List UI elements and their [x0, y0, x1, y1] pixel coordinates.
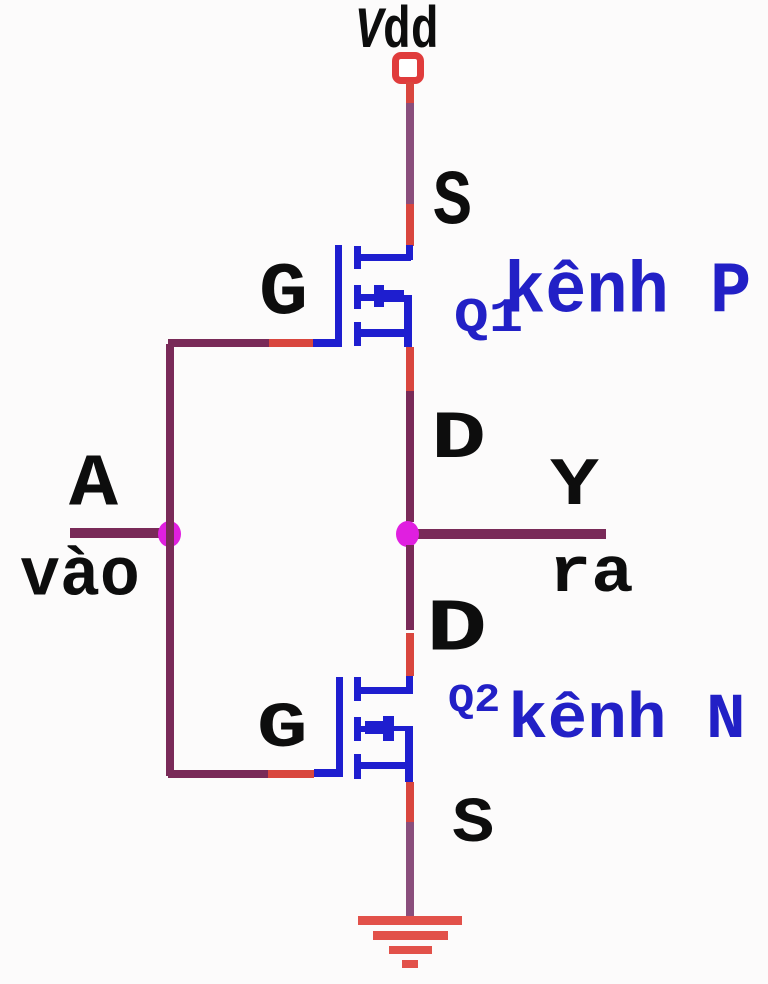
wire Q1 source red segment: [406, 204, 414, 246]
label Q1: [454, 295, 523, 343]
label D (drain of Q1): [431, 406, 486, 474]
wire Q1 gate lead red segment: [269, 339, 313, 347]
label S (source of Q2): [452, 793, 494, 857]
wire Vdd red segment: [406, 82, 414, 103]
label G (gate of Q2): [257, 698, 308, 762]
wire Q1 drain red segment: [406, 347, 414, 391]
label G (gate of Q1): [259, 258, 308, 332]
label S (source of Q1): [433, 165, 472, 243]
node A junction: [158, 521, 181, 547]
wire input vertical (gate bus): [166, 344, 174, 776]
ground bar 3: [389, 946, 432, 954]
label Q2: [448, 682, 500, 722]
wire Q2 gate lead purple: [168, 770, 268, 778]
transistor Q2 (NMOS): [314, 676, 415, 782]
label D (drain of Q2): [426, 594, 487, 668]
Vdd label: [355, 4, 439, 62]
wire Q2 source red segment: [406, 782, 414, 822]
wire node Y down purple: [406, 545, 414, 630]
label kenh N: [508, 689, 746, 753]
wire input horizontal: [70, 528, 170, 538]
wire Q1 gate lead purple: [168, 339, 269, 347]
label vao: [20, 543, 140, 611]
ground bar 2: [373, 931, 448, 940]
label A (input): [69, 449, 118, 523]
label Y (output): [550, 453, 599, 521]
wire Q2 drain red segment: [406, 633, 414, 676]
label ra: [549, 543, 633, 607]
wire output horizontal: [410, 529, 606, 539]
Vdd terminal: [392, 52, 424, 84]
wire Q2 source purple to ground: [406, 822, 414, 917]
transistor Q1 (PMOS): [313, 244, 414, 348]
node Y junction: [396, 521, 419, 547]
wire Q1 drain purple to node Y: [406, 391, 414, 522]
label kenh P: [504, 257, 751, 329]
wire Vdd rail purple: [406, 103, 414, 204]
ground bar 1: [358, 916, 462, 925]
wire Q2 gate lead red segment: [268, 770, 314, 778]
ground bar 4: [402, 960, 418, 968]
